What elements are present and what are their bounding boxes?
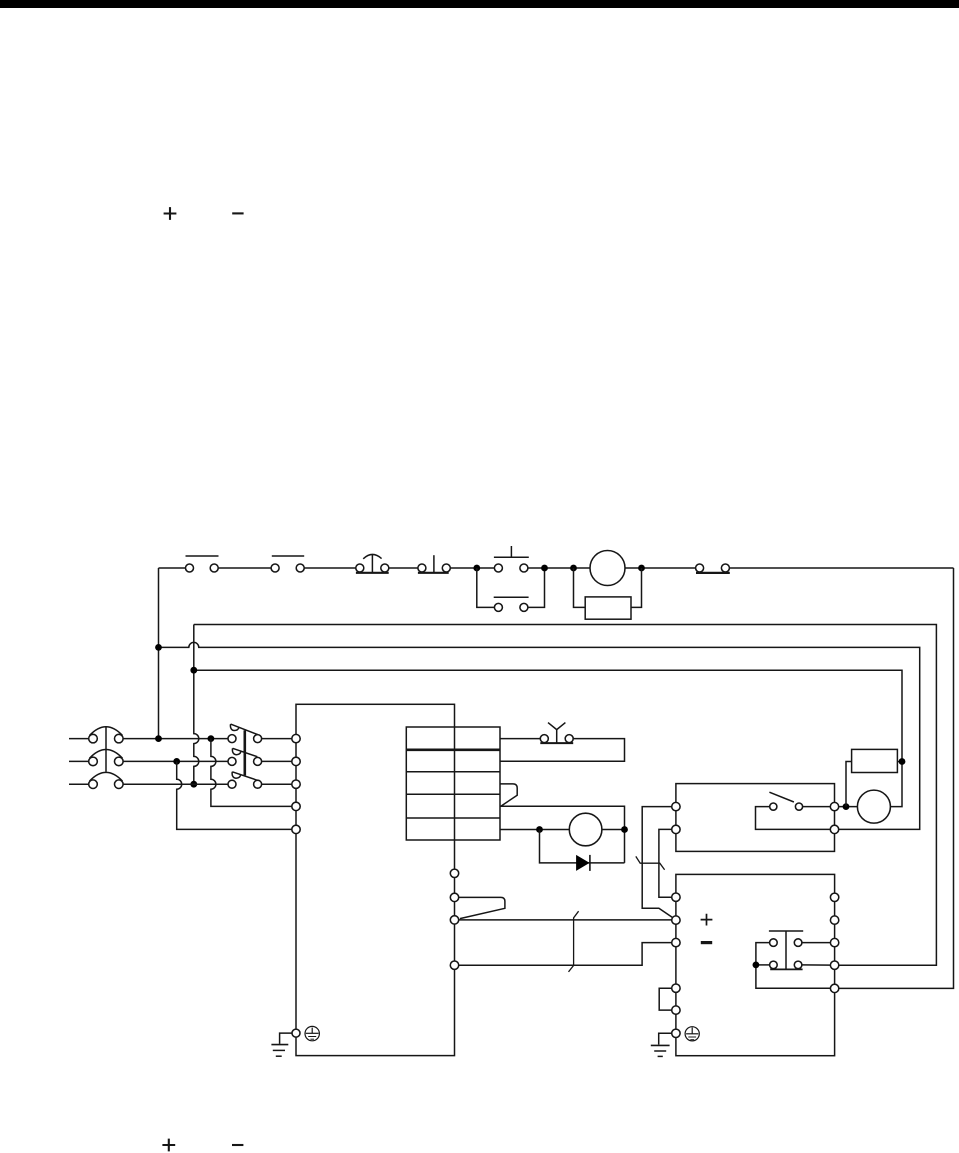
resistor R1 (surge suppressor across coil)	[574, 568, 642, 619]
terminal B1 left 1	[672, 802, 680, 810]
terminal U1 row5	[292, 825, 300, 833]
terminal B1 left 2	[672, 825, 680, 833]
contact MC aux (holding contact, parallel branch)	[477, 568, 545, 611]
node: line B on left rail	[155, 644, 162, 651]
pushbutton S3 (start, NO)	[494, 546, 529, 572]
terminal U1 right row d	[450, 961, 458, 969]
wire: three phase stub row 3	[69, 783, 89, 785]
wire: unit to charger -	[459, 943, 672, 966]
battery polarity label + (top)	[164, 207, 177, 220]
brake unit box	[676, 784, 835, 852]
protective earth symbol (controller unit)	[305, 1026, 319, 1040]
charger unit box	[676, 874, 835, 1055]
node: row 2 to terminal 5	[173, 758, 180, 765]
wire: diode branch	[540, 830, 625, 863]
terminal U1 row3	[292, 780, 300, 788]
terminal B1 right 1	[830, 802, 838, 810]
wire: row 3 breaker to contactor	[123, 783, 228, 785]
node: resistor R2 right junction	[899, 758, 906, 765]
motor M2 (brake motor)	[857, 790, 890, 823]
wire: contactor to unit terminals row 2	[262, 760, 292, 762]
breaker CB1 pole 3	[89, 772, 123, 788]
node: junction after coil	[638, 565, 645, 572]
wire: row 1 breaker to contactor	[123, 738, 228, 740]
battery polarity label - (top)	[232, 212, 243, 214]
pushbutton S2 (stop, NC)	[418, 555, 450, 573]
connector flag (table row3)	[500, 784, 517, 806]
node: diode right junction	[621, 826, 628, 833]
terminal C2 batt b	[672, 1006, 680, 1014]
contactor MC pole 1	[228, 724, 262, 743]
wire: contactor to unit terminals row 3	[262, 783, 292, 785]
node: junction before start button	[473, 565, 480, 572]
pushbutton S1 (emergency stop, NC mushroom head)	[356, 554, 389, 573]
protective earth symbol (charger)	[685, 1027, 699, 1041]
wire: row 2 breaker to contactor	[123, 760, 228, 762]
node: line C junction	[190, 667, 197, 674]
coil MC (contactor coil)	[590, 551, 625, 586]
cable mark (battery leads)	[569, 911, 579, 972]
wire: feedback line B with hop	[159, 642, 920, 829]
terminal U1 right row a	[450, 869, 458, 877]
wire: pushbutton upper pole loop	[756, 943, 831, 989]
wire: contactor to unit terminals row 1	[262, 738, 292, 740]
terminal C2 plus	[672, 916, 680, 924]
wire: vertical from line A to row 3 with hops	[194, 625, 199, 785]
label + (charger)	[701, 914, 713, 926]
wire: table row1 to thermal protector	[500, 738, 540, 740]
page header black bar	[0, 0, 959, 8]
terminal C2 right 2	[830, 916, 838, 924]
battery polarity label - (bottom)	[232, 1144, 243, 1146]
wire: brake unit to motor M2	[839, 806, 858, 808]
wire: brake terminal 1 to charger +	[642, 807, 673, 918]
thermal protector TH (with Y element)	[540, 723, 573, 744]
breaker CB1 pole 1	[89, 727, 123, 743]
node: junction after start button	[541, 565, 548, 572]
diode D1	[576, 855, 590, 871]
wire: feedback line A	[194, 625, 937, 966]
cable mark (brake leads)	[636, 856, 665, 869]
wire: unit to charger +	[459, 919, 672, 921]
node: rail drop on row 1	[155, 735, 162, 742]
wire: three phase stub row 2	[69, 760, 89, 762]
contact TH aux (NC, after coil)	[696, 564, 730, 573]
ground symbol (controller unit)	[271, 1033, 291, 1056]
terminal C2 ground	[672, 1029, 680, 1037]
node: motor M2 left junction	[843, 803, 850, 810]
terminal C2 right 3	[830, 938, 838, 946]
wire: pushbutton lower right stub	[802, 964, 831, 966]
terminal B1 right 2	[830, 825, 838, 833]
wire: three phase stub row 1	[69, 738, 89, 740]
wire: pushbutton upper right stub	[802, 942, 831, 944]
terminal C2 right 4	[830, 961, 838, 969]
terminal C2 batt a	[672, 984, 680, 992]
terminal C2 right 1	[830, 893, 838, 901]
motor M1	[569, 813, 602, 846]
terminal U1 row4	[292, 802, 300, 810]
contactor MC pole 3	[228, 772, 262, 788]
terminal C2 right 5	[830, 984, 838, 992]
terminal U1 right row c	[450, 916, 458, 924]
wire: control rail (top)	[159, 567, 954, 569]
wire: brake terminal 2 to charger 1	[659, 829, 672, 897]
node: vertical meets row 3	[190, 781, 197, 788]
wire: table row4 to motor junction	[500, 806, 625, 863]
contact KS2 (NC)	[271, 556, 304, 572]
ground symbol (charger)	[651, 1033, 672, 1056]
connector flag (unit right b-c)	[459, 897, 505, 918]
wire: row1 dot down to terminal 4 with hops	[211, 739, 292, 807]
contact KS1 (NC, key switch)	[186, 556, 219, 572]
breaker CB1 mechanical link	[105, 727, 107, 772]
contactor MC pole 2	[228, 748, 262, 765]
wire: feedback line C	[194, 670, 902, 806]
wire: row2 dot down to terminal 5 with hop	[177, 761, 292, 829]
resistor R2	[852, 749, 898, 772]
node: diode left junction	[536, 826, 543, 833]
terminal U1 ground	[292, 1029, 300, 1037]
wire: pushbutton lower pole stub	[756, 964, 770, 966]
terminal U1 row2	[292, 757, 300, 765]
wire: left rail drop	[158, 568, 160, 739]
wire: battery link	[659, 988, 672, 1010]
node: junction before coil	[570, 565, 577, 572]
battery polarity label + (bottom)	[162, 1139, 175, 1152]
wire: resistor R2 left lead	[846, 762, 852, 807]
wire: rail right drop to charger terminal	[839, 568, 954, 988]
pushbutton S4 (charger, 2-pole NO)	[769, 931, 803, 969]
terminal table	[406, 727, 500, 840]
contactor MC mechanical link	[244, 730, 247, 775]
terminal C2 minus	[672, 938, 680, 946]
breaker CB1 pole 2	[89, 750, 123, 766]
wire: resistor R2 right lead	[897, 761, 902, 763]
terminal U1 row1	[292, 734, 300, 742]
wire: table row5 to motor	[500, 829, 625, 831]
node: pushbutton poles junction	[753, 962, 760, 969]
controller unit box	[296, 704, 455, 1055]
terminal C2 left 1	[672, 893, 680, 901]
wire: thermal protector return loop to row2	[500, 739, 625, 762]
label - (charger)	[701, 941, 712, 944]
node: row 1 to terminal 4	[208, 735, 215, 742]
switch SW1 (brake release)	[756, 792, 831, 829]
terminal U1 right row b	[450, 893, 458, 901]
